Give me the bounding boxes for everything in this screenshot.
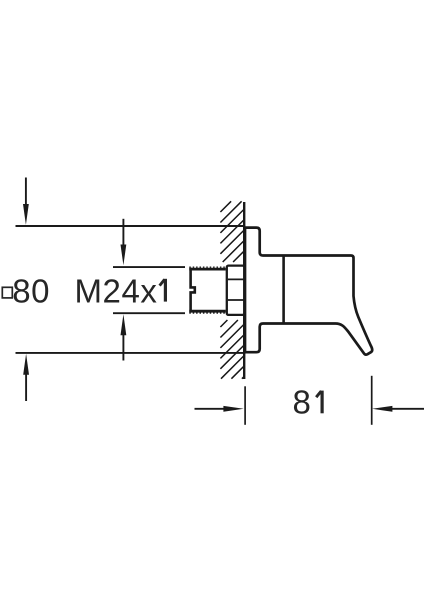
valve stem thread bottom edge [189,311,225,313]
arrow down at left (80 dim, top) [23,178,29,225]
wall surface line [243,202,245,379]
arrow down middle (M24x1 dim, top) [121,219,127,265]
joint line between collar and handle [282,256,285,324]
wall hatch upper section [220,201,243,262]
bottom dimension line (80 lower boundary) [16,352,246,354]
arrow up middle (M24x1 dim, bottom) [121,314,127,360]
top dimension line (80 upper boundary) [16,225,246,227]
81 dim: right arrow pointing left [372,406,424,412]
81 dim: left arrow pointing right [195,406,244,412]
arrow up at left (80 dim, bottom) [23,354,29,401]
81 dim: left extension line (wall surface) [244,386,246,425]
svg-text:8: 8 [293,383,311,420]
valve stem left edge with screwdriver slot jog [191,268,195,313]
svg-text:M24x: M24x [75,272,158,309]
valve stem thread top edge [189,267,225,269]
lower extension line (thread bottom) [113,312,185,314]
hex nut [227,266,244,315]
81 dim: right extension line (handle tip) [371,376,373,425]
upper extension line (thread top) [113,266,185,268]
square symbol of dimension 80 [2,287,12,298]
escutcheon + handle body outline [245,228,372,355]
svg-text:80: 80 [12,272,50,309]
wall hatch lower section [220,320,243,379]
text 81 [293,383,323,420]
digit 1 of M24x1 [160,279,166,302]
